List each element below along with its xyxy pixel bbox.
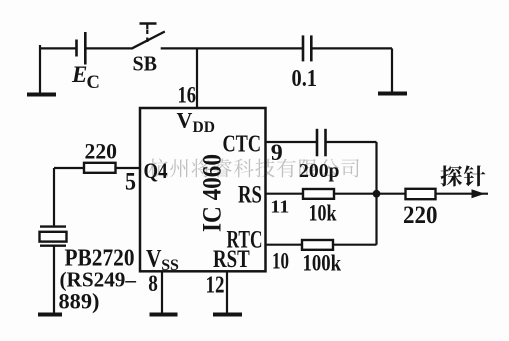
battery EC plates bbox=[77, 32, 86, 65]
wire: right corner down to ground bbox=[391, 48, 393, 93]
wire: resistor 220 to pin 5 bbox=[116, 167, 140, 169]
probe label 探针 bbox=[441, 165, 486, 186]
svg-text:RS: RS bbox=[238, 182, 262, 209]
probe arrow bbox=[472, 189, 485, 198]
wire: pin 8 to ground bbox=[161, 273, 163, 314]
wire: pin 11 to resistor 10k bbox=[267, 193, 304, 195]
svg-text:V: V bbox=[177, 108, 193, 133]
svg-text:Q4: Q4 bbox=[144, 158, 168, 183]
capacitor 0.1 plates bbox=[303, 35, 311, 61]
wire: down to piezo top bbox=[53, 168, 55, 227]
svg-text:8: 8 bbox=[148, 271, 158, 296]
wire top: cap 0.1 to right corner bbox=[312, 47, 393, 49]
wire top: battery to switch bbox=[85, 47, 133, 49]
wire: pin 10 to resistor 100k bbox=[267, 244, 303, 246]
resistor 220 output bbox=[406, 189, 436, 199]
wire: pin 9 to cap 200p bbox=[267, 141, 318, 143]
wire: piezo to resistor 220 bbox=[54, 167, 84, 169]
wire: pin 12 to ground bbox=[226, 273, 228, 314]
wire: cap 200p to right bus bbox=[326, 141, 377, 143]
ground pin 12 bbox=[213, 313, 242, 317]
ground piezo bbox=[38, 313, 62, 317]
watermark bbox=[149, 159, 359, 178]
wire: resistor 100k to right bus bbox=[333, 244, 377, 246]
ground left bbox=[27, 93, 56, 97]
IC U1 4060 box bbox=[140, 108, 266, 271]
switch SB actuator bbox=[140, 24, 157, 43]
svg-text:0.1: 0.1 bbox=[292, 65, 318, 92]
wire: left down to ground bbox=[39, 45, 41, 94]
svg-text:RST: RST bbox=[213, 244, 250, 273]
svg-text:SS: SS bbox=[161, 257, 179, 274]
svg-text:100k: 100k bbox=[303, 251, 342, 276]
wire top: ground to battery bbox=[39, 47, 76, 49]
wire: pin 16 drop bbox=[196, 48, 198, 107]
ground top right bbox=[378, 92, 407, 96]
wire: junction to resistor 220 output bbox=[377, 193, 406, 195]
resistor 10k bbox=[303, 189, 334, 199]
svg-text:5: 5 bbox=[125, 166, 136, 195]
svg-text:200p: 200p bbox=[299, 160, 340, 182]
node junction dot bbox=[373, 190, 381, 198]
wire: resistor 10k to junction bbox=[334, 193, 377, 195]
resistor 220 left bbox=[84, 163, 116, 173]
wire: piezo bottom to ground bbox=[53, 246, 55, 313]
svg-text:889): 889) bbox=[59, 288, 100, 313]
svg-text:10k: 10k bbox=[309, 201, 337, 226]
svg-text:CTC: CTC bbox=[223, 132, 262, 158]
svg-text:9: 9 bbox=[271, 140, 283, 165]
svg-text:10: 10 bbox=[272, 249, 289, 275]
svg-text:SB: SB bbox=[133, 51, 158, 75]
ground pin 8 bbox=[150, 313, 178, 317]
resistor 100k bbox=[302, 240, 333, 250]
svg-text:V: V bbox=[146, 245, 162, 272]
wire: resistor 220 to probe arrow bbox=[436, 193, 489, 195]
svg-text:C: C bbox=[87, 73, 100, 93]
svg-text:220: 220 bbox=[403, 202, 438, 229]
wire: right vertical bus bbox=[375, 142, 377, 245]
capacitor 200p plates bbox=[317, 129, 326, 157]
svg-text:11: 11 bbox=[270, 197, 289, 217]
svg-text:16: 16 bbox=[178, 83, 197, 108]
svg-text:DD: DD bbox=[193, 119, 215, 136]
svg-text:E: E bbox=[71, 62, 87, 87]
svg-text:220: 220 bbox=[85, 138, 118, 163]
piezo PB2720 bbox=[40, 227, 67, 246]
switch SB lever bbox=[132, 32, 164, 49]
svg-text:IC 4060: IC 4060 bbox=[197, 154, 226, 232]
wire top: switch to cap 0.1 bbox=[161, 47, 303, 49]
svg-text:12: 12 bbox=[206, 272, 225, 298]
